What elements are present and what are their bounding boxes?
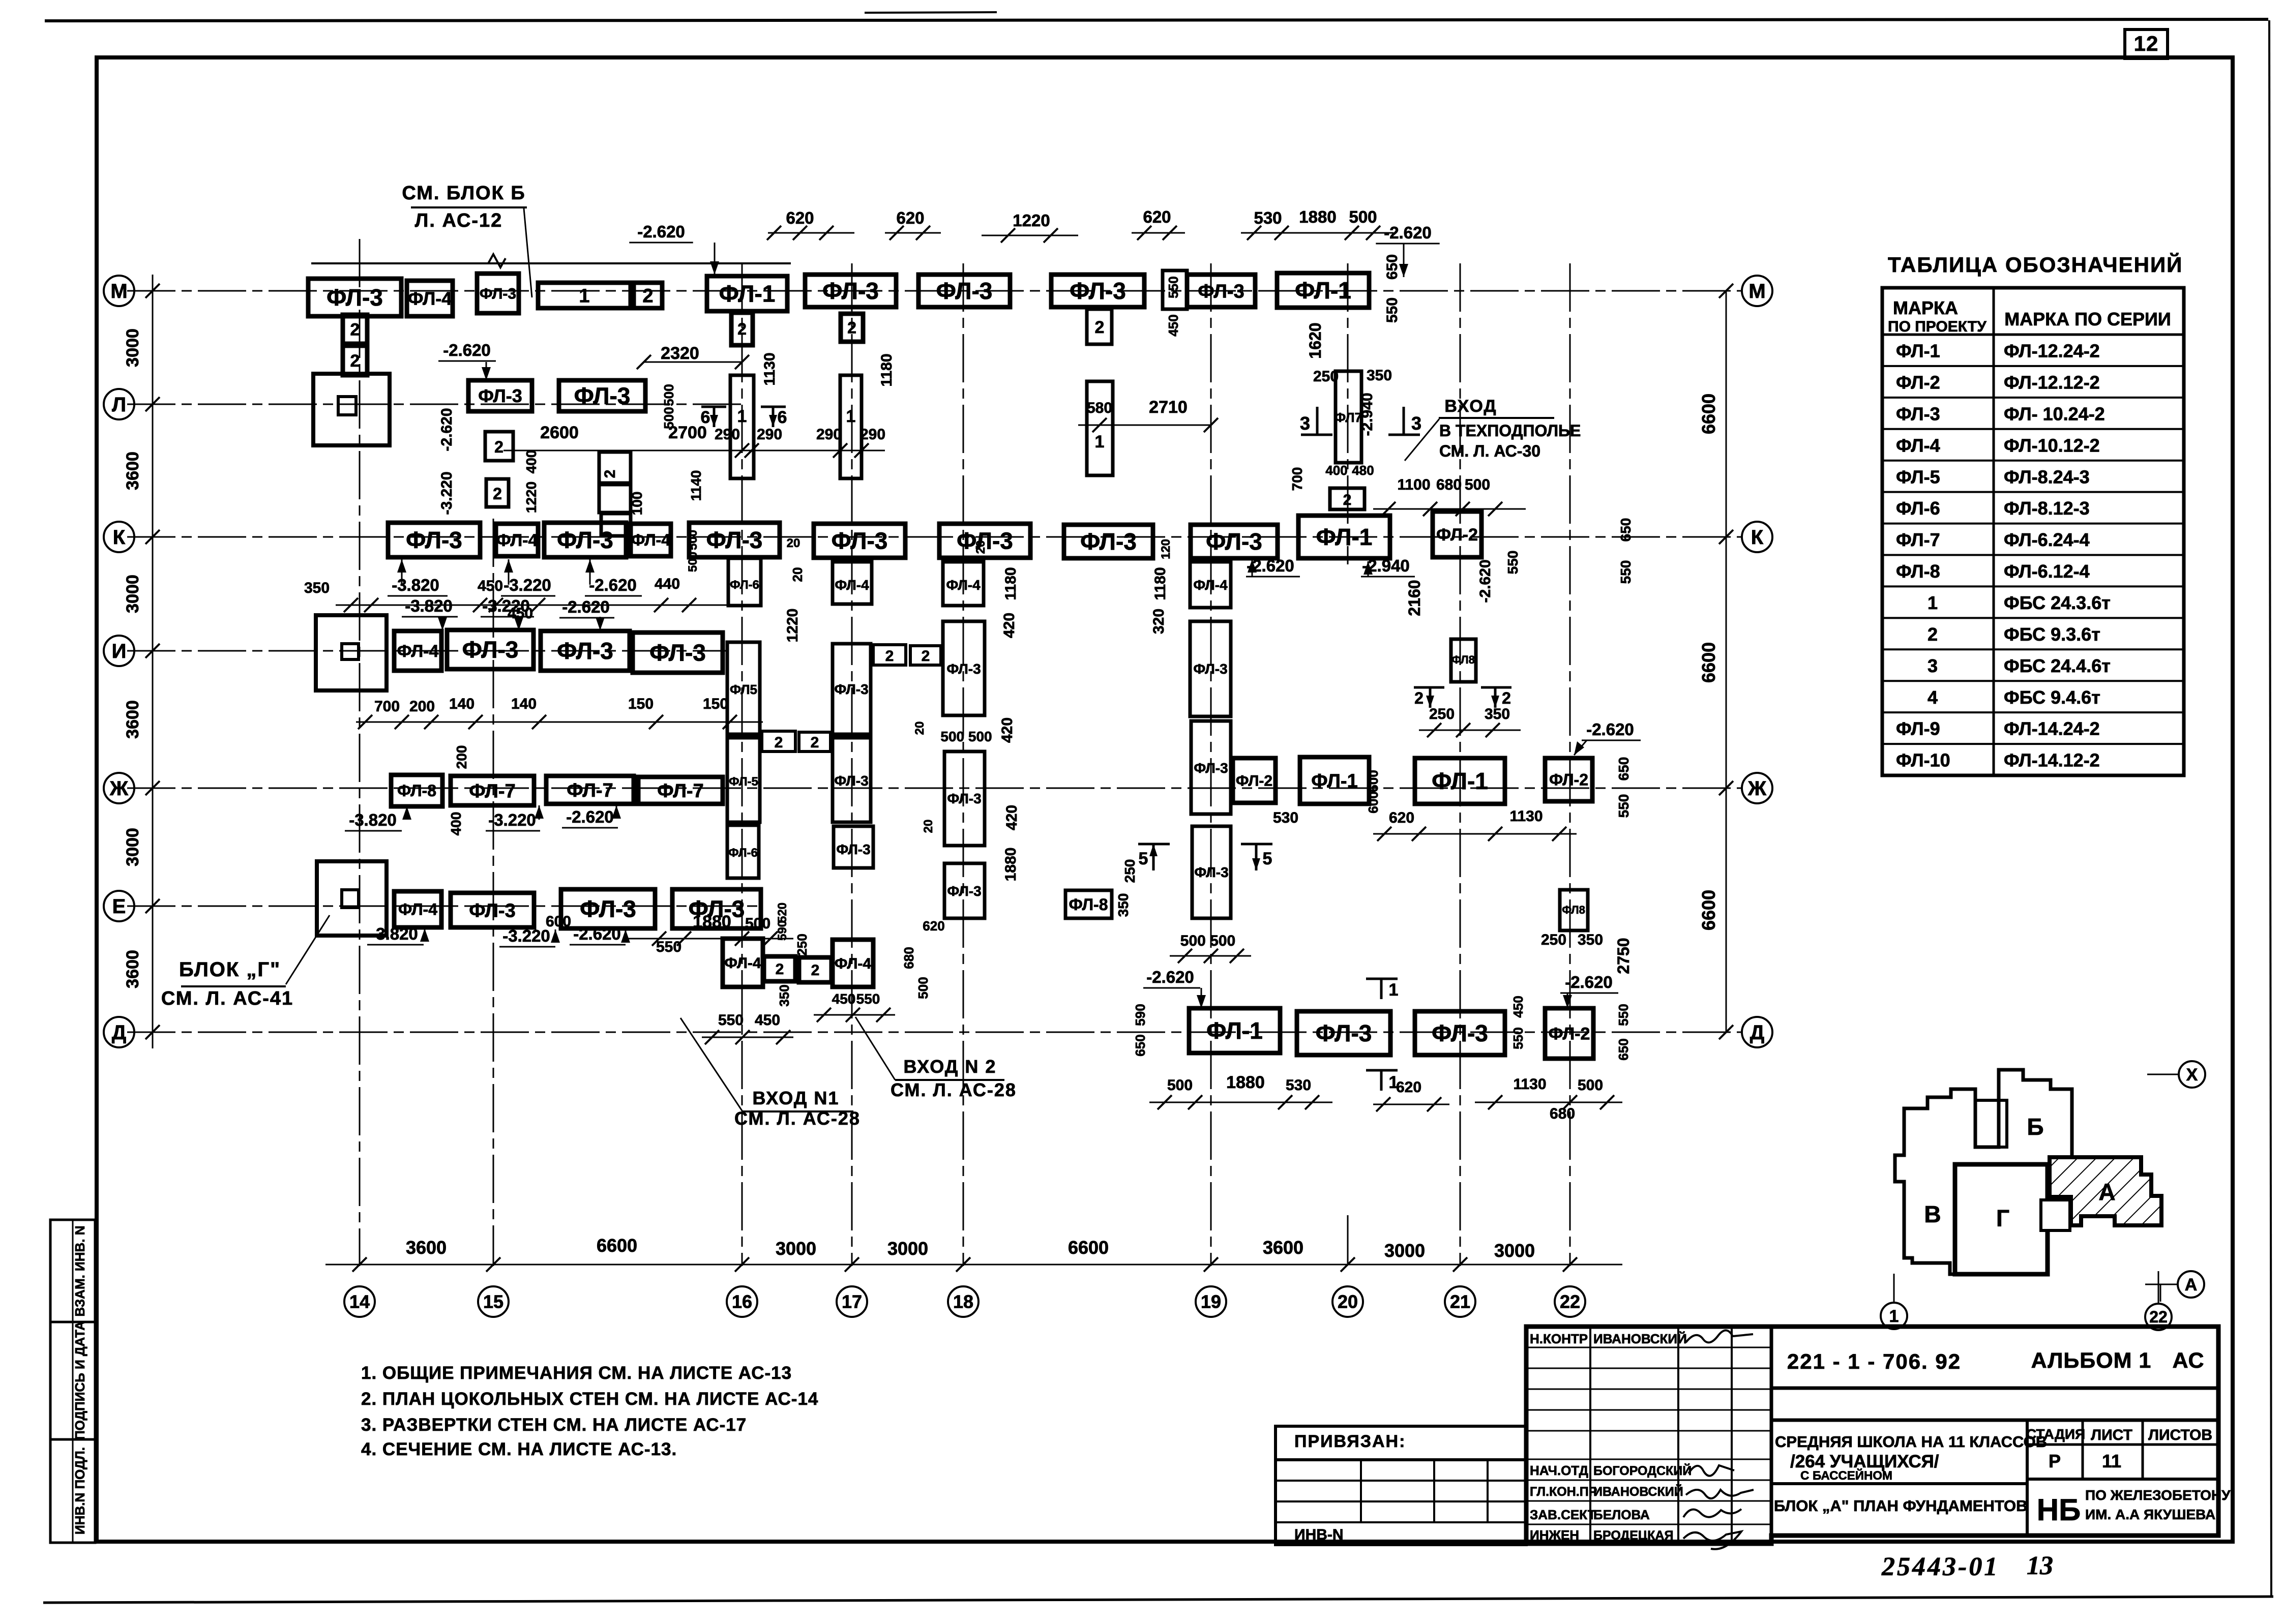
- svg-text:450: 450: [832, 991, 856, 1007]
- svg-text:450: 450: [755, 1012, 780, 1029]
- svg-text:ФЛ-8: ФЛ-8: [397, 781, 436, 800]
- svg-text:-2.620: -2.620: [566, 807, 614, 826]
- svg-text:ЗАВ.СЕКТ: ЗАВ.СЕКТ: [1530, 1507, 1596, 1522]
- svg-text:-3.820: -3.820: [392, 576, 439, 594]
- axis row Л: [127, 404, 743, 405]
- svg-text:ФЛ-4: ФЛ-4: [631, 531, 670, 549]
- svg-text:-3.820: -3.820: [405, 596, 453, 615]
- svg-text:3000: 3000: [123, 575, 142, 613]
- block ФЛ-3 row М narrow: [477, 274, 519, 313]
- svg-text:ФЛ-4: ФЛ-4: [1896, 435, 1940, 456]
- svg-text:ФЛ-3: ФЛ-3: [478, 385, 522, 406]
- svg-text:ФЛ-7: ФЛ-7: [567, 780, 613, 801]
- svg-text:500: 500: [1167, 1077, 1193, 1094]
- key plan notch in Б: [1975, 1100, 2007, 1147]
- svg-text:ФЛ-4: ФЛ-4: [946, 577, 981, 593]
- svg-text:250: 250: [1429, 706, 1455, 723]
- svg-text:ФЛ-2: ФЛ-2: [1436, 525, 1478, 545]
- svg-text:1: 1: [579, 285, 589, 307]
- svg-text:6600: 6600: [1698, 890, 1719, 930]
- section marker 6 right: [761, 406, 786, 408]
- svg-text:2: 2: [350, 320, 360, 339]
- svg-text:БЛОК „А" ПЛАН ФУНДАМЕНТОВ: БЛОК „А" ПЛАН ФУНДАМЕНТОВ: [1774, 1497, 2028, 1515]
- svg-text:290: 290: [816, 426, 842, 443]
- svg-text:20: 20: [1338, 1291, 1358, 1312]
- svg-text:550: 550: [718, 1012, 744, 1029]
- svg-text:2710: 2710: [1149, 398, 1188, 417]
- svg-text:СМ. Л. АС-28: СМ. Л. АС-28: [734, 1108, 861, 1129]
- key plan block Г outline: [1955, 1164, 2048, 1274]
- svg-text:-3.820: -3.820: [349, 810, 397, 829]
- dim line 2710: [1078, 425, 1211, 426]
- svg-text:21: 21: [1450, 1291, 1470, 1312]
- svg-text:18: 18: [953, 1291, 973, 1312]
- svg-text:6600: 6600: [1068, 1237, 1109, 1258]
- arrow -3.820 Е: [424, 928, 426, 935]
- svg-text:500: 500: [915, 977, 931, 999]
- key plan axis circle Х: [2147, 1074, 2180, 1075]
- block ФЛ-4 row К 1: [496, 524, 538, 556]
- scan edge line top: [45, 19, 2268, 21]
- svg-text:15: 15: [483, 1291, 503, 1312]
- svg-text:ФЛ-3: ФЛ-3: [574, 383, 631, 409]
- svg-text:-2.620: -2.620: [1565, 973, 1613, 991]
- key plan outline blocks Б В Г: [1895, 1070, 2072, 1274]
- svg-text:ФЛ-3: ФЛ-3: [836, 841, 870, 857]
- axis row К: [127, 536, 1742, 538]
- block ФЛ-4 row М: [407, 281, 453, 316]
- leader Блок Г: [286, 915, 330, 984]
- block ФЛ-3 row К 1: [388, 523, 480, 557]
- svg-text:600: 600: [1366, 770, 1381, 792]
- svg-text:Ж: Ж: [1747, 777, 1767, 800]
- svg-text:1: 1: [1095, 432, 1105, 452]
- svg-text:ФЛ-4: ФЛ-4: [835, 955, 872, 972]
- axis column 19: [1210, 263, 1212, 1266]
- block ФЛ8 small col22: [1560, 890, 1588, 930]
- column footing row Е: [317, 861, 387, 936]
- arrow -3.220 К: [508, 559, 510, 585]
- table row ФЛ-9: [1882, 743, 2184, 745]
- svg-text:550: 550: [1166, 276, 1181, 298]
- right axis circles М К Ж Д: [1742, 276, 1772, 306]
- stamp stadia list listov grid: [2026, 1420, 2029, 1536]
- block ФЛ8 small col21: [1451, 639, 1476, 682]
- block ФЛ-3 row И 3: [633, 633, 723, 673]
- svg-text:500: 500: [1465, 476, 1490, 493]
- svg-text:350: 350: [304, 580, 330, 596]
- strip col16 block ФЛ-6 upper: [728, 558, 761, 606]
- svg-text:ФЛ-5: ФЛ-5: [729, 775, 758, 789]
- svg-text:В ТЕХПОДПОЛЬЕ: В ТЕХПОДПОЛЬЕ: [1439, 422, 1581, 440]
- svg-text:200: 200: [409, 698, 435, 715]
- svg-text:2: 2: [350, 351, 360, 371]
- block ФЛ-3 row Е 2: [561, 889, 655, 928]
- svg-text:25443-01: 25443-01: [1881, 1552, 1999, 1581]
- svg-text:320: 320: [1150, 609, 1167, 634]
- svg-text:1. ОБЩИЕ ПРИМЕЧАНИЯ СМ. НА: 1. ОБЩИЕ ПРИМЕЧАНИЯ СМ. НА ЛИСТЕ АС-13: [361, 1363, 792, 1383]
- svg-text:3: 3: [1928, 655, 1938, 676]
- stacked blocks col15 lower: [599, 452, 631, 483]
- svg-text:ФЛ-7: ФЛ-7: [1896, 529, 1940, 550]
- svg-text:2: 2: [776, 961, 784, 978]
- svg-text:6600: 6600: [1698, 642, 1719, 683]
- svg-text:3000: 3000: [887, 1238, 928, 1259]
- block 2 stack upper: [343, 315, 367, 344]
- svg-text:620: 620: [896, 208, 924, 227]
- svg-text:ФЛ-4: ФЛ-4: [408, 288, 452, 309]
- strip col16 block ФЛ-6 lower: [727, 825, 759, 878]
- svg-text:ФЛ-8: ФЛ-8: [1069, 895, 1108, 914]
- svg-text:ФЛ- 10.24-2: ФЛ- 10.24-2: [2004, 403, 2105, 424]
- svg-text:3600: 3600: [1263, 1237, 1303, 1258]
- block ФЛ-3 row М mid: [1051, 275, 1144, 307]
- block ФЛ-2 row Ж col22: [1545, 758, 1592, 801]
- svg-text:500: 500: [661, 384, 676, 406]
- svg-text:ФБС 9.3.6т: ФБС 9.3.6т: [2004, 624, 2100, 645]
- svg-text:ФЛ-3: ФЛ-3: [462, 637, 519, 663]
- table обозначений frame: [1882, 288, 2184, 775]
- column footing row Л col14: [313, 374, 390, 445]
- svg-text:М: М: [1748, 280, 1765, 303]
- svg-text:700: 700: [1289, 467, 1305, 491]
- svg-text:2160: 2160: [1405, 580, 1424, 616]
- strip col16 block ФЛ-5 1: [727, 642, 760, 734]
- svg-text:МАРКА ПО СЕРИИ: МАРКА ПО СЕРИИ: [2004, 309, 2171, 329]
- svg-text:20: 20: [974, 540, 988, 554]
- block ФЛ-3 row М col18: [918, 275, 1010, 307]
- svg-text:500: 500: [1578, 1077, 1603, 1094]
- svg-text:Х: Х: [2186, 1065, 2198, 1085]
- dim line 500-500 mid: [1170, 955, 1251, 957]
- svg-text:140: 140: [449, 696, 475, 712]
- block 1 vertical mid 2136: [1087, 381, 1113, 475]
- svg-text:3000: 3000: [776, 1238, 816, 1259]
- block 2 small row Л-К col15: [486, 479, 509, 507]
- svg-text:-2.620: -2.620: [1146, 968, 1194, 986]
- svg-text:450: 450: [1166, 314, 1181, 336]
- svg-text:500: 500: [1349, 207, 1377, 226]
- block ФЛ-1 row Ж 1: [1300, 757, 1369, 804]
- svg-text:ФЛ5: ФЛ5: [730, 682, 757, 697]
- block ФЛ-3 row Л col15: [468, 380, 532, 411]
- leader Вход N2: [855, 1017, 895, 1080]
- svg-text:ИНВ.N ПОДЛ.: ИНВ.N ПОДЛ.: [72, 1447, 87, 1535]
- svg-text:6600: 6600: [1698, 394, 1719, 434]
- svg-text:550: 550: [1505, 551, 1521, 575]
- svg-text:22: 22: [2149, 1308, 2168, 1326]
- axis row И: [127, 650, 727, 652]
- svg-text:550: 550: [1618, 560, 1634, 584]
- svg-text:ФЛ-3: ФЛ-3: [832, 528, 888, 554]
- svg-text:2. ПЛАН ЦОКОЛЬНЫХ СТЕН СМ.: 2. ПЛАН ЦОКОЛЬНЫХ СТЕН СМ. НА ЛИСТЕ АС-1…: [361, 1389, 818, 1409]
- svg-text:Л: Л: [112, 394, 126, 416]
- block 2 row М: [634, 283, 662, 308]
- arrow -2.620 К: [589, 559, 591, 585]
- sheet number box 12: [2125, 29, 2168, 58]
- svg-text:550: 550: [1616, 794, 1632, 818]
- svg-text:19: 19: [1201, 1291, 1221, 1312]
- svg-text:250: 250: [1541, 931, 1566, 948]
- leader Вход техподполье: [1405, 419, 1439, 461]
- svg-text:ЛИСТОВ: ЛИСТОВ: [2148, 1427, 2212, 1443]
- svg-text:1180: 1180: [1152, 567, 1169, 600]
- svg-text:ФЛ-4: ФЛ-4: [1193, 577, 1228, 593]
- block ФЛ-3 row Д 2: [1415, 1011, 1505, 1055]
- svg-text:ФЛ7: ФЛ7: [1335, 410, 1362, 425]
- svg-text:Л. АС-12: Л. АС-12: [415, 210, 503, 231]
- svg-text:350: 350: [1115, 893, 1131, 917]
- arrow -2.620 Д col19: [1201, 988, 1202, 1008]
- arrow -2.620 Ж col22: [1574, 740, 1587, 755]
- arrow -2.620 Д col22: [1567, 993, 1568, 1008]
- svg-text:590: 590: [1133, 1004, 1148, 1026]
- table row ФЛ-8: [1882, 585, 2184, 587]
- svg-text:ИНВ-N: ИНВ-N: [1294, 1526, 1344, 1543]
- block ФЛ-3 row Л right: [559, 380, 645, 411]
- block 2 small below ФЛ-3 col17: [1087, 309, 1112, 344]
- svg-text:1220: 1220: [784, 609, 801, 643]
- svg-text:250: 250: [1122, 859, 1138, 883]
- svg-text:3: 3: [1300, 413, 1310, 434]
- section marker 2 right col21: [1481, 686, 1511, 689]
- svg-text:К: К: [113, 526, 126, 549]
- svg-text:ФЛ-3: ФЛ-3: [580, 896, 636, 922]
- svg-text:2: 2: [737, 320, 747, 338]
- svg-text:650: 650: [1616, 1038, 1631, 1060]
- svg-text:ПОДПИСЬ И ДАТА: ПОДПИСЬ И ДАТА: [72, 1321, 87, 1440]
- axis column 22: [1569, 263, 1571, 1266]
- svg-text:2750: 2750: [1614, 938, 1633, 974]
- block ФЛ-7 row Ж 2: [546, 776, 634, 804]
- svg-text:А: А: [2098, 1179, 2115, 1205]
- svg-text:500 500: 500 500: [1180, 933, 1235, 949]
- scan edge line bottom: [43, 1597, 2273, 1603]
- svg-text:ФЛ-3: ФЛ-3: [1194, 760, 1228, 776]
- svg-text:140: 140: [511, 696, 537, 712]
- svg-text:2: 2: [775, 734, 783, 751]
- strip col17 block ФЛ-4: [833, 562, 872, 604]
- axis row М: [127, 290, 1742, 292]
- table row 4: [1882, 711, 2184, 713]
- svg-text:Ж: Ж: [109, 777, 129, 800]
- svg-text:ФЛ-8.12-3: ФЛ-8.12-3: [2004, 498, 2090, 519]
- table row 3: [1882, 680, 2184, 682]
- svg-text:ФЛ-1: ФЛ-1: [1311, 770, 1357, 792]
- block ФЛ-3 row М col19: [1187, 275, 1255, 307]
- block ФЛ-2 row Ж col19: [1233, 758, 1276, 803]
- svg-text:620: 620: [923, 918, 944, 934]
- section marker 1 upper: [1366, 978, 1398, 980]
- svg-text:ФЛ-3: ФЛ-3: [1080, 528, 1137, 555]
- svg-text:350: 350: [1578, 931, 1603, 948]
- arrow -3.220 И: [518, 617, 520, 630]
- svg-text:ФЛ-8.24-3: ФЛ-8.24-3: [2004, 466, 2090, 487]
- block small row М col19: [1163, 270, 1187, 309]
- section marker 6 left: [701, 406, 726, 408]
- stamp middle divider: [1771, 1419, 2218, 1422]
- svg-text:290: 290: [757, 426, 782, 443]
- svg-text:480: 480: [1352, 463, 1374, 478]
- dim line Ж below: [1373, 833, 1577, 835]
- svg-text:Д: Д: [112, 1021, 127, 1044]
- svg-text:ФЛ-6.24-4: ФЛ-6.24-4: [2004, 529, 2090, 550]
- svg-text:1880: 1880: [1299, 207, 1336, 226]
- svg-text:600: 600: [546, 913, 571, 930]
- strip col16 block ФЛ-5 2: [727, 738, 760, 822]
- svg-text:1130: 1130: [1513, 1076, 1546, 1093]
- svg-text:ФЛ-1: ФЛ-1: [1432, 768, 1488, 794]
- svg-text:ФЛ-3: ФЛ-3: [557, 638, 613, 664]
- svg-text:ФЛ-3: ФЛ-3: [1316, 1020, 1372, 1046]
- svg-text:250: 250: [794, 934, 810, 955]
- svg-text:250: 250: [1313, 368, 1339, 385]
- svg-text:500: 500: [686, 530, 700, 550]
- table row ФЛ-4: [1882, 460, 2184, 462]
- svg-text:16: 16: [732, 1291, 752, 1312]
- svg-text:520: 520: [776, 903, 789, 923]
- svg-text:2: 2: [493, 485, 502, 503]
- dim line top row М: [768, 232, 854, 234]
- block ФЛ-1 row Д: [1189, 1008, 1280, 1053]
- svg-text:ФБС 24.3.6т: ФБС 24.3.6т: [2004, 592, 2111, 613]
- block ФЛ-1 row Ж 2: [1415, 758, 1505, 804]
- svg-text:ФЛ-1: ФЛ-1: [1316, 524, 1373, 550]
- block 1 vertical col17 Л-К: [840, 375, 862, 478]
- svg-text:4: 4: [1928, 687, 1938, 708]
- strip col17 block ФЛ-3 2: [833, 738, 871, 822]
- svg-text:ФЛ-3: ФЛ-3: [1193, 661, 1227, 677]
- svg-text:150: 150: [703, 696, 728, 712]
- svg-text:-2.620: -2.620: [589, 576, 637, 594]
- svg-text:АЛЬБОМ 1: АЛЬБОМ 1: [2031, 1348, 2152, 1373]
- svg-text:ВЗАМ. ИНВ. N: ВЗАМ. ИНВ. N: [72, 1225, 87, 1316]
- svg-text:221 - 1 - 706. 92: 221 - 1 - 706. 92: [1787, 1349, 1961, 1373]
- svg-text:ФЛ-3: ФЛ-3: [557, 527, 613, 553]
- dim line 250-350 col21: [1419, 730, 1521, 731]
- title block outer frame: [1526, 1327, 2218, 1544]
- svg-text:420: 420: [999, 717, 1016, 743]
- svg-text:550: 550: [1384, 297, 1401, 323]
- left axis circles М Л К И Ж Е Д: [104, 276, 134, 306]
- svg-text:120: 120: [1159, 539, 1173, 559]
- block ФЛ-4 row И: [394, 631, 441, 671]
- svg-text:1140: 1140: [688, 470, 704, 501]
- svg-text:2: 2: [1343, 492, 1352, 508]
- svg-text:-2.620: -2.620: [562, 597, 610, 616]
- svg-text:3000: 3000: [1384, 1240, 1425, 1261]
- svg-text:3600: 3600: [123, 950, 142, 988]
- svg-text:6: 6: [701, 408, 710, 427]
- svg-text:350: 350: [1485, 706, 1510, 723]
- svg-text:ЛИСТ: ЛИСТ: [2091, 1427, 2132, 1443]
- svg-text:В: В: [1924, 1201, 1941, 1227]
- block ФЛ-3 row И 1: [447, 630, 533, 669]
- svg-text:-3.220: -3.220: [502, 926, 550, 945]
- block ФЛ-3 row М col17: [805, 275, 896, 307]
- svg-text:620: 620: [1396, 1079, 1421, 1096]
- dim line porch: [702, 1037, 793, 1038]
- leader Вход N1: [680, 1018, 743, 1111]
- svg-text:ПРИВЯЗАН:: ПРИВЯЗАН:: [1294, 1432, 1406, 1451]
- section marker 2 left col21: [1414, 686, 1444, 689]
- block ФЛ-4 porch col17: [833, 940, 873, 987]
- svg-text:ФЛ-3: ФЛ-3: [834, 681, 868, 697]
- svg-text:1: 1: [1889, 1307, 1899, 1326]
- svg-text:ВХОД N 2: ВХОД N 2: [904, 1056, 997, 1077]
- svg-text:БЕЛОВА: БЕЛОВА: [1593, 1507, 1650, 1522]
- svg-text:ФЛ-8: ФЛ-8: [1896, 561, 1940, 582]
- block 1 vertical col16 Л-К: [730, 375, 754, 478]
- svg-text:20: 20: [787, 536, 800, 550]
- svg-text:ФЛ-3: ФЛ-3: [1432, 1020, 1488, 1046]
- svg-text:ФЛ-4: ФЛ-4: [398, 900, 437, 919]
- axis column 14: [359, 239, 361, 1266]
- svg-text:1100: 1100: [1397, 476, 1430, 493]
- svg-text:4. СЕЧЕНИЕ СМ. НА ЛИСТЕ: 4. СЕЧЕНИЕ СМ. НА ЛИСТЕ АС-13.: [361, 1439, 677, 1459]
- strip col19 block ФЛ-4: [1190, 562, 1231, 608]
- svg-text:1220: 1220: [1013, 211, 1050, 230]
- svg-text:АС: АС: [2172, 1348, 2204, 1373]
- svg-text:1: 1: [846, 407, 856, 426]
- svg-text:530: 530: [1273, 809, 1298, 826]
- svg-text:ВХОД: ВХОД: [1444, 397, 1497, 416]
- svg-text:ФЛ-12.24-2: ФЛ-12.24-2: [2004, 341, 2100, 362]
- svg-text:3000: 3000: [123, 328, 142, 367]
- block ФЛ-4 porch col16: [723, 939, 763, 987]
- block ФЛ-3 row К 2: [544, 523, 626, 557]
- bottom dimension line: [325, 1264, 1622, 1266]
- svg-text:2: 2: [1502, 689, 1511, 707]
- svg-text:2: 2: [847, 319, 856, 337]
- arrow -2.620 Е: [625, 929, 627, 935]
- svg-text:650: 650: [1616, 757, 1632, 781]
- section marker 5 right: [1241, 843, 1272, 846]
- svg-text:500: 500: [745, 915, 770, 932]
- svg-text:2: 2: [811, 962, 820, 979]
- svg-text:ФЛ-3: ФЛ-3: [480, 286, 516, 303]
- axis column 17: [851, 263, 853, 1266]
- svg-text:НБ: НБ: [2037, 1493, 2081, 1527]
- svg-text:420: 420: [1001, 613, 1018, 638]
- strip col17 block ФЛ-3 3: [834, 826, 873, 868]
- svg-text:680: 680: [1436, 476, 1462, 493]
- block 2 below ФЛ-3 col17 row М: [841, 314, 863, 342]
- svg-text:ФЛ-4: ФЛ-4: [835, 577, 869, 593]
- block ФЛ-1 row М col16: [707, 276, 787, 311]
- svg-text:290: 290: [715, 426, 740, 443]
- svg-text:ПО ЖЕЛЕЗОБЕТОНУ: ПО ЖЕЛЕЗОБЕТОНУ: [2085, 1487, 2231, 1503]
- svg-text:650: 650: [1618, 518, 1634, 542]
- table row ФЛ-2: [1882, 397, 2184, 399]
- block ФЛ-2 row К: [1433, 512, 1481, 557]
- axis column 15: [493, 519, 494, 1266]
- svg-text:550: 550: [1510, 1027, 1526, 1049]
- svg-text:3000: 3000: [123, 828, 142, 866]
- svg-text:Е: Е: [112, 895, 126, 918]
- right axis dimension line 6600: [1726, 291, 1727, 1032]
- svg-text:ТАБЛИЦА ОБОЗНАЧЕНИЙ: ТАБЛИЦА ОБОЗНАЧЕНИЙ: [1888, 252, 2183, 277]
- svg-text:500: 500: [686, 552, 700, 572]
- svg-text:650: 650: [1384, 254, 1401, 280]
- svg-text:17: 17: [842, 1291, 862, 1312]
- axis row Ж: [127, 788, 1742, 789]
- table row 2: [1882, 648, 2184, 650]
- svg-text:580: 580: [1087, 400, 1112, 416]
- svg-text:ПО ПРОЕКТУ: ПО ПРОЕКТУ: [1888, 318, 1986, 335]
- svg-text:680: 680: [901, 947, 916, 969]
- svg-text:1: 1: [1389, 980, 1399, 1000]
